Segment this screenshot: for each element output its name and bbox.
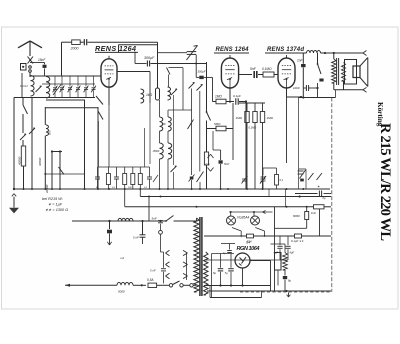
svg-text:∗∗ = 1300 Ω: ∗∗ = 1300 Ω [45,208,68,212]
svg-text:RGN 1064: RGN 1064 [237,246,261,252]
svg-text:40000: 40000 [18,156,22,165]
svg-text:1kΩ: 1kΩ [311,211,316,215]
svg-text:1MΩ: 1MΩ [215,95,222,99]
svg-text:5µ: 5µ [213,271,217,275]
svg-text:40000: 40000 [38,157,42,166]
svg-text:RENS 1374d: RENS 1374d [267,47,304,53]
svg-text:0,1MΩ: 0,1MΩ [262,67,272,71]
svg-text:0,1MΩ: 0,1MΩ [249,126,257,130]
svg-text:RENS 1264: RENS 1264 [95,44,136,53]
svg-text:LA: LA [121,256,125,260]
svg-text:300µF: 300µF [144,56,155,60]
svg-text:000: 000 [48,130,52,135]
svg-text:15nF: 15nF [38,58,46,62]
svg-text:8µ: 8µ [288,279,292,283]
svg-text:1kΩ: 1kΩ [146,93,153,97]
svg-text:∗: ∗ [317,185,320,189]
svg-text:∗ = 1µF: ∗ = 1µF [48,203,63,207]
svg-text:2000: 2000 [70,47,79,51]
svg-text:7µ: 7µ [225,271,229,275]
svg-text:5/4: 5/4 [246,241,251,245]
svg-text:0µ: 0µ [323,196,326,200]
svg-text:0,1: 0,1 [280,178,284,182]
svg-text:1µ: 1µ [223,251,226,255]
svg-text:CA 0,2: CA 0,2 [20,84,28,88]
svg-text:5000: 5000 [118,290,125,294]
svg-text:VGZ6A4: VGZ6A4 [237,216,249,220]
svg-text:300: 300 [162,123,167,126]
svg-text:5 nF: 5 nF [150,269,156,273]
svg-text:5nF: 5nF [224,162,229,166]
svg-text:0,1µF: 0,1µF [233,94,241,98]
svg-text:5 nF: 5 nF [133,235,139,239]
svg-text:5MΩ: 5MΩ [214,122,221,126]
svg-text:0,5A: 0,5A [147,278,154,282]
svg-text:CA: CA [206,162,210,166]
svg-text:5nF: 5nF [250,67,257,71]
svg-text:R 215 WL/R 220 WL: R 215 WL/R 220 WL [377,123,393,241]
svg-text:1MΩ: 1MΩ [236,116,243,120]
svg-text:15000: 15000 [153,150,160,153]
svg-text:RENS 1264: RENS 1264 [216,47,250,53]
svg-text:10nF: 10nF [293,86,300,90]
svg-text:300µF: 300µF [198,70,206,74]
svg-text:0,1µF ∗∗: 0,1µF ∗∗ [291,239,304,243]
svg-text:8000: 8000 [293,214,300,218]
svg-text:1MΩ: 1MΩ [267,116,274,120]
svg-text:bei R215 W:: bei R215 W: [42,197,63,201]
svg-text:5nF: 5nF [152,217,157,221]
svg-text:4µF: 4µF [290,251,295,255]
